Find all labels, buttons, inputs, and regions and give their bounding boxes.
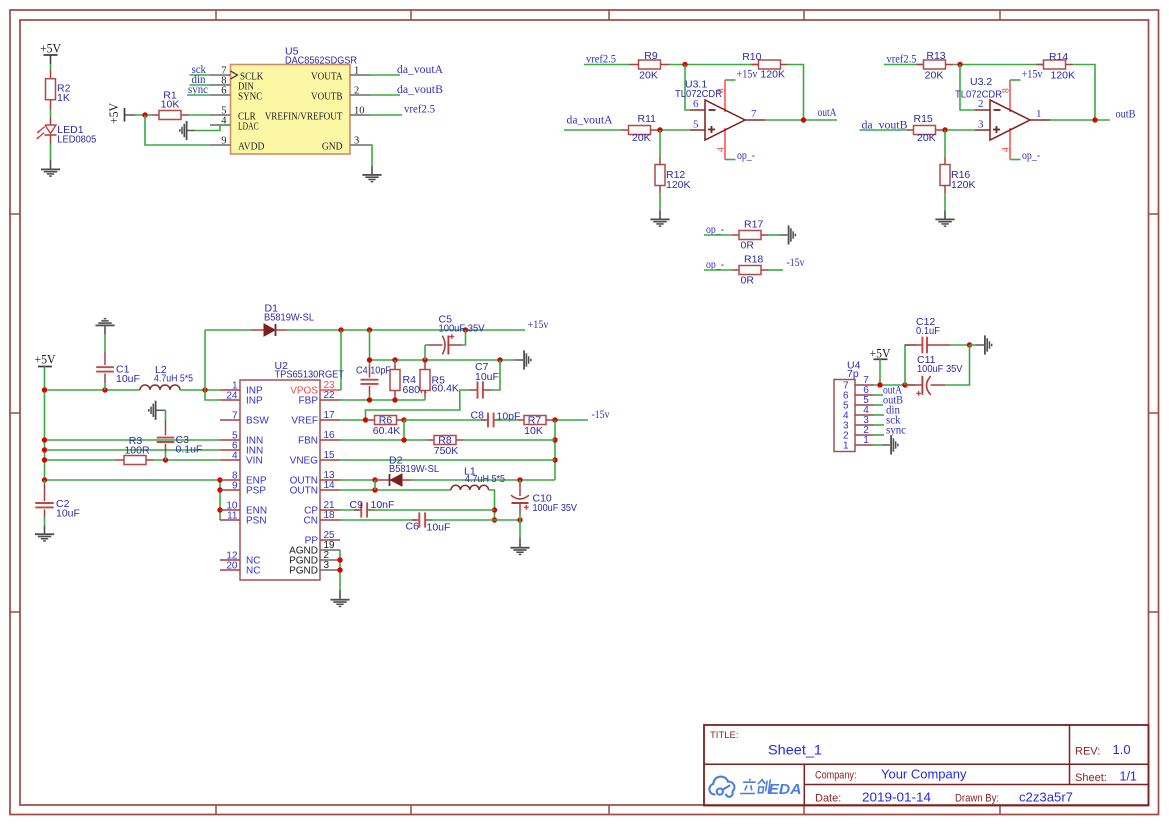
U4 pin 6 <box>855 394 874 396</box>
svg-text:4: 4 <box>232 450 238 461</box>
junction C4 column top <box>367 327 372 332</box>
svg-text:20K: 20K <box>632 132 651 144</box>
op-amp U3.1 output pin <box>745 119 765 121</box>
svg-text:+15v: +15v <box>528 319 549 331</box>
junction column at CP row <box>492 507 497 512</box>
resistor R6 (label inside) <box>367 419 375 421</box>
junction rail row450 <box>42 447 47 452</box>
svg-text:FBN: FBN <box>298 436 318 447</box>
wire L1 to C9/C6 column <box>489 490 495 520</box>
svg-text:3: 3 <box>324 560 330 571</box>
wire INP node up to D1 anode <box>205 390 220 400</box>
wire +5V to U4 pin7 row <box>879 359 881 385</box>
resistor R15 <box>907 129 914 131</box>
svg-text:20K: 20K <box>925 69 944 81</box>
ground (U4 pin1) <box>890 435 898 454</box>
wire C12 to ground node <box>950 344 970 346</box>
svg-text:-15v: -15v <box>592 409 610 421</box>
wire R10 to outA node <box>788 65 804 121</box>
svg-text:0.1uF: 0.1uF <box>176 443 203 455</box>
junction R11/R12 node <box>657 127 662 132</box>
junction ENN tie <box>217 507 222 512</box>
svg-text:C8: C8 <box>471 409 485 421</box>
svg-text:PSP: PSP <box>246 486 266 497</box>
svg-text:1: 1 <box>354 66 359 77</box>
wire U5 GND to ground <box>371 145 373 166</box>
svg-text:C4 10pF: C4 10pF <box>356 365 391 377</box>
svg-text:C6: C6 <box>406 520 420 532</box>
resistor R3 <box>116 459 125 461</box>
svg-text:8: 8 <box>716 88 726 93</box>
svg-text:op_-: op_- <box>737 150 755 162</box>
wire U3.2 output to outB node <box>1050 119 1110 121</box>
junction C11 left <box>902 382 907 387</box>
wire OUTN row 490 <box>340 489 451 491</box>
U2 pin 24 INP <box>220 399 240 401</box>
svg-text:op_-: op_- <box>1022 150 1040 162</box>
wire R9 to feedback node <box>669 64 759 66</box>
wire R8 to -15v column <box>463 439 555 441</box>
ground (R16) <box>935 219 954 227</box>
wire D2 to -15v column <box>412 479 555 481</box>
U5 pin 5 CLR <box>210 114 231 116</box>
svg-text:24: 24 <box>226 390 238 401</box>
junction R1/+5V node <box>142 112 147 117</box>
U2 pin 11 PSN <box>220 519 240 521</box>
U2 pin 16 FBN <box>320 439 340 441</box>
svg-text:+5V: +5V <box>40 42 61 56</box>
U5 pin 2 VOUTB <box>350 94 371 96</box>
svg-text:10uF: 10uF <box>427 522 451 534</box>
wire rail row INP (row 390) <box>45 389 141 391</box>
wire da_voutB to R15 <box>860 129 907 131</box>
wire R13 to feedback node B <box>953 64 1044 66</box>
svg-text:sync: sync <box>188 84 208 96</box>
wire FBP row 400 <box>340 399 425 401</box>
U4 pin 7 <box>855 384 874 386</box>
ground (C2) <box>35 533 54 541</box>
wire C6 to C10 bottom <box>428 519 520 521</box>
wire +5V rail vertical <box>44 367 46 481</box>
junction INP node <box>202 387 207 392</box>
resistor R12 <box>659 157 661 165</box>
junction row360 at R4 <box>392 357 397 362</box>
wire VREF row 420 <box>340 419 367 421</box>
wire +15v rail row 330 <box>287 329 525 331</box>
junction C1 row390 <box>102 387 107 392</box>
capacitor C1 <box>104 352 106 365</box>
svg-text:TITLE:: TITLE: <box>710 730 739 741</box>
junction +5V/pin7 <box>877 382 882 387</box>
wire R12 to ground <box>659 193 661 211</box>
ground stub row360 <box>515 359 524 361</box>
svg-text:GND: GND <box>322 141 343 153</box>
junction -15v column FBN <box>552 437 557 442</box>
wire R16 to ground <box>944 193 946 211</box>
svg-text:4: 4 <box>716 147 726 152</box>
svg-text:da_voutA: da_voutA <box>567 115 614 127</box>
capacitor C11 (polarized) <box>905 384 922 386</box>
title block border <box>704 725 1149 806</box>
svg-text:100R: 100R <box>124 444 150 456</box>
svg-text:3: 3 <box>354 136 359 147</box>
svg-text:AVDD: AVDD <box>238 141 265 153</box>
svg-text:B5819W-SL: B5819W-SL <box>264 312 314 324</box>
junction C12 right / ground node <box>967 342 972 347</box>
junction VREF node <box>363 417 368 422</box>
junction outB node <box>1092 117 1097 122</box>
resistor R16 <box>944 157 946 165</box>
U4 pin 1 <box>855 444 874 446</box>
U2 pin 8 ENP <box>220 479 240 481</box>
resistor R8 (label inside) <box>427 439 434 441</box>
svg-text:1: 1 <box>843 441 849 452</box>
svg-text:20K: 20K <box>917 132 936 144</box>
svg-text:22: 22 <box>324 390 336 401</box>
junction VPOS drop <box>338 327 343 332</box>
title block REV column divider <box>1069 725 1071 785</box>
U5 pin 9 AVDD <box>210 144 231 146</box>
wire FBN row 440 <box>340 439 427 441</box>
frame tick marks top <box>215 10 217 20</box>
svg-text:VREFIN/VREFOUT: VREFIN/VREFOUT <box>265 111 343 123</box>
svg-text:60.4K: 60.4K <box>373 425 400 437</box>
svg-text:120K: 120K <box>951 179 976 191</box>
wire ground to C1 <box>104 334 106 352</box>
svg-text:9: 9 <box>232 480 238 491</box>
resistor R4 <box>394 360 396 362</box>
resistor R2 <box>46 79 56 100</box>
junction feedback node B <box>957 62 962 67</box>
svg-text:+5V: +5V <box>870 347 891 361</box>
svg-text:R14: R14 <box>1049 51 1068 63</box>
ground (R12) <box>650 219 669 227</box>
U2 pin 1 INP <box>220 389 240 391</box>
U4 pin 5 <box>855 404 874 406</box>
svg-text:da_voutB: da_voutB <box>397 84 443 96</box>
svg-text:REV:: REV: <box>1075 746 1100 758</box>
U4 pin 4 <box>855 414 874 416</box>
capacitor C6 <box>412 519 420 521</box>
svg-text:10uF: 10uF <box>475 371 499 383</box>
ground (C1) <box>95 318 114 326</box>
svg-text:sync: sync <box>886 425 906 437</box>
junction rail row460 <box>42 457 47 462</box>
title block logo cell divider <box>803 764 805 805</box>
junction -15v column VNEG <box>552 457 557 462</box>
junction C3 bottom <box>163 457 168 462</box>
svg-text:1/1: 1/1 <box>1120 770 1137 784</box>
svg-text:R13: R13 <box>926 50 945 62</box>
junction R6/R8 column top <box>401 417 406 422</box>
svg-text:Sheet_1: Sheet_1 <box>768 742 822 758</box>
resistor R10 <box>752 64 759 66</box>
svg-text:750K: 750K <box>434 445 459 457</box>
junction C10 top <box>517 477 522 482</box>
svg-text:U3.2: U3.2 <box>970 76 992 88</box>
U5 pin 8 DIN <box>210 84 231 86</box>
wire vref2.5 to R13 <box>884 64 924 66</box>
svg-text:4.7uH 5*5: 4.7uH 5*5 <box>154 373 193 385</box>
title block horizontal divider 1 <box>704 763 1149 765</box>
wire R6 to C8 <box>404 419 486 421</box>
logo EasyEDA cloud icon <box>709 777 734 797</box>
IC U2 TPS65130RGET body <box>240 380 320 580</box>
svg-text:EDA: EDA <box>769 782 802 798</box>
svg-text:Sheet:: Sheet: <box>1075 772 1107 784</box>
svg-text:3: 3 <box>978 118 984 130</box>
svg-text:2: 2 <box>978 98 984 110</box>
op-amp U3.1 power pin 8 (+15v) <box>724 80 726 112</box>
svg-text:outA: outA <box>818 107 838 119</box>
svg-text:LED0805: LED0805 <box>57 134 96 146</box>
wire U3.1 output to outA node <box>765 119 837 121</box>
wire VPOS to +15v rail <box>340 389 341 391</box>
ground (LDAC) <box>179 121 187 140</box>
wire C10 to ground <box>519 520 521 539</box>
U5 clock marker pin 7 <box>231 71 238 79</box>
junction feedback node A <box>682 62 687 67</box>
op-amp U3.1 power pin 4 (op_-) <box>724 128 726 160</box>
wire U4 pin7 to C11 <box>874 384 915 386</box>
svg-text:TL072CDR: TL072CDR <box>675 88 722 100</box>
junction FBN at column <box>401 437 406 442</box>
wire R6/R8 column <box>403 420 405 440</box>
svg-text:120K: 120K <box>666 179 691 191</box>
svg-text:PSN: PSN <box>246 516 267 527</box>
wire L2 to INP node <box>180 389 220 391</box>
svg-text:11: 11 <box>227 510 238 521</box>
U2 pin 18 CN <box>320 519 340 521</box>
svg-text:SYNC: SYNC <box>238 91 262 103</box>
wire +5V flag to node <box>135 114 152 116</box>
junction outA node <box>801 117 806 122</box>
wire C5 right vertical <box>462 330 466 345</box>
svg-text:Drawn By:: Drawn By: <box>955 792 999 804</box>
svg-text:TPS65130RGET: TPS65130RGET <box>275 368 345 380</box>
wire OUTN row 480 <box>340 479 376 481</box>
junction -15v column top <box>552 417 557 422</box>
svg-text:VOUTB: VOUTB <box>311 91 343 103</box>
U2 pin 22 FBP <box>320 399 340 401</box>
svg-text:5: 5 <box>693 118 699 130</box>
svg-text:0.1uF: 0.1uF <box>916 325 940 337</box>
resistor R1 <box>152 114 159 116</box>
svg-text:8: 8 <box>1001 88 1011 93</box>
svg-text:100uF 35V: 100uF 35V <box>533 502 578 514</box>
wire R2 to LED1 <box>50 100 52 110</box>
svg-text:Your Company: Your Company <box>881 767 967 781</box>
frame tick marks left <box>10 213 20 215</box>
wire AGND/PGND tie <box>339 550 341 590</box>
svg-text:+15v: +15v <box>1022 69 1043 81</box>
wire U5 LDAC to ground <box>195 125 231 131</box>
wire feedback node B to U3.2 inverting input <box>960 65 975 111</box>
wire R14 to outB node <box>1073 65 1096 121</box>
svg-text:vref2.5: vref2.5 <box>404 103 435 115</box>
U2 pin 7 BSW <box>220 419 240 421</box>
op-amp U3.2 power pin 8 (+15v) <box>1009 80 1011 112</box>
wire CP row 510 <box>340 509 359 511</box>
svg-text:+15v: +15v <box>737 69 758 81</box>
capacitor C3 <box>148 401 156 420</box>
op-amp U3.2 power pin 4 (op_-) <box>1009 128 1011 160</box>
wire C11 column up <box>905 345 916 385</box>
wire rail row ENP (row 480) <box>45 479 221 481</box>
svg-text:DAC8562SDGSR: DAC8562SDGSR <box>285 54 357 66</box>
U2 pin 12 NC <box>220 559 240 561</box>
frame tick marks bottom <box>215 805 217 815</box>
IC U5 DAC8562SDGSR body <box>231 65 351 155</box>
wire R7 to -15v <box>553 419 589 421</box>
svg-text:op_-: op_- <box>706 259 724 271</box>
svg-text:9: 9 <box>221 136 226 147</box>
capacitor C2 <box>44 480 46 484</box>
resistor R17 <box>732 234 739 236</box>
connector U4 body <box>834 380 855 452</box>
svg-text:120K: 120K <box>1051 69 1076 81</box>
U2 pin 2 PGND <box>320 559 340 561</box>
wire feedback node to U3.1 inverting input <box>685 65 690 111</box>
resistor R18 <box>732 269 739 271</box>
wire C8 to R7 <box>495 419 518 421</box>
U5 pin 10 VREFIN/VREFOUT <box>350 114 371 116</box>
svg-text:10K: 10K <box>161 99 180 111</box>
wire row 360 branch <box>370 359 515 361</box>
capacitor C9 <box>354 509 362 511</box>
diode D1 B5819W-SL <box>251 329 264 331</box>
wire CN row 520 <box>340 519 417 521</box>
title block horizontal divider 2 <box>804 784 1148 786</box>
U4 pin 2 <box>855 434 874 436</box>
junction C5 right <box>463 327 468 332</box>
op-amp U3.1 input pins <box>690 109 705 111</box>
ground (R17) <box>788 225 796 244</box>
wire R11 to U3.1 non-inverting input <box>658 129 691 131</box>
ground (U5 GND) <box>362 174 381 182</box>
svg-text:20K: 20K <box>639 69 658 81</box>
resistor R14 <box>1037 64 1044 66</box>
wire vref2.5 to R9 <box>584 64 629 66</box>
wire LED1 to ground <box>50 135 52 144</box>
svg-text:100uF 35V: 100uF 35V <box>439 323 485 335</box>
svg-text:15: 15 <box>324 450 336 461</box>
svg-text:LDAC: LDAC <box>238 121 259 133</box>
junction FBP at R4 <box>392 397 397 402</box>
wire C9 to column <box>370 509 495 511</box>
wire R1 to U5 CLR <box>189 114 210 116</box>
svg-text:10uF: 10uF <box>56 507 80 519</box>
LED LED1 <box>45 125 56 134</box>
svg-text:7p: 7p <box>847 368 859 380</box>
svg-text:1: 1 <box>1036 108 1042 120</box>
U2 pin 5 INN <box>220 439 240 441</box>
svg-text:Date:: Date: <box>815 792 841 804</box>
junction FBP at C4 <box>367 397 372 402</box>
svg-text:1: 1 <box>863 435 869 446</box>
svg-text:10uF: 10uF <box>116 373 140 385</box>
wire +5V node to U5 AVDD <box>145 115 210 145</box>
wire R17 to ground <box>768 234 780 236</box>
svg-text:20: 20 <box>226 560 238 571</box>
U5 pin 7 SCLK <box>210 74 231 76</box>
wire node to R16 <box>944 130 946 157</box>
wire -15v column <box>554 420 556 480</box>
junction PGND pin3 tie <box>337 567 342 572</box>
U2 pin 19 AGND <box>320 549 340 551</box>
svg-text:6: 6 <box>221 86 226 97</box>
wire R3 to VIN pin <box>154 459 220 461</box>
capacitor C8 <box>481 419 488 421</box>
junction OUTN13 column <box>372 477 377 482</box>
resistor R11 <box>622 129 629 131</box>
svg-text:R10: R10 <box>742 51 761 63</box>
svg-text:VOUTA: VOUTA <box>311 71 343 83</box>
svg-text:7: 7 <box>751 108 757 120</box>
ground (U2 AGND) <box>330 599 349 607</box>
svg-text:Company:: Company: <box>815 769 857 781</box>
wire U4 pin1 to ground <box>874 444 882 446</box>
resistor R5 <box>424 362 426 370</box>
wire rail row VIN (row 460) <box>45 459 116 461</box>
svg-text:2019-01-14: 2019-01-14 <box>862 790 931 804</box>
wire OUTN13/14 tie <box>374 480 376 490</box>
svg-text:-15v: -15v <box>787 257 805 269</box>
svg-text:CN: CN <box>304 516 318 527</box>
junction row360 at C5 left <box>422 357 427 362</box>
ground stub (C11/C12) <box>970 344 977 346</box>
wire C4 column <box>369 330 371 366</box>
junction row360 at C7 right <box>497 357 502 362</box>
svg-text:op_-: op_- <box>706 224 724 236</box>
U5 pin 4 LDAC <box>210 124 231 126</box>
U2 pin 9 PSP <box>220 489 240 491</box>
svg-text:4: 4 <box>1001 147 1011 152</box>
resistor R7 (label inside) <box>518 419 525 421</box>
junction PGND pin2 tie <box>337 557 342 562</box>
wire C7 left to VREF node <box>366 390 464 420</box>
junction PSP tie <box>217 487 222 492</box>
U5 pin 6 SYNC <box>210 94 231 96</box>
svg-text:OUTN: OUTN <box>290 486 318 497</box>
svg-text:FBP: FBP <box>299 396 319 407</box>
svg-text:7: 7 <box>232 410 238 421</box>
svg-text:+5V: +5V <box>107 103 121 124</box>
junction R15/R16 node <box>942 127 947 132</box>
ground (C11/C12) <box>984 335 992 354</box>
wire da_voutA to R11 <box>564 129 622 131</box>
svg-text:6: 6 <box>693 98 699 110</box>
svg-text:120K: 120K <box>761 69 786 81</box>
U2 pin 17 VREF <box>320 419 340 421</box>
wire node to R12 <box>659 130 661 157</box>
svg-text:NC: NC <box>246 566 260 577</box>
wire op_- to R17 <box>704 234 732 236</box>
junction ENP tie <box>217 477 222 482</box>
U2 pin 10 ENN <box>220 509 240 511</box>
wire rail row INN5 (row 440) <box>45 439 221 441</box>
resistor R13 <box>917 64 924 66</box>
junction C10 bottom <box>517 517 522 522</box>
svg-text:R17: R17 <box>744 219 763 231</box>
svg-text:10pF: 10pF <box>497 411 521 423</box>
svg-text:0R: 0R <box>741 239 755 251</box>
svg-text:60.4K: 60.4K <box>432 383 459 395</box>
U2 pin 6 INN <box>220 449 240 451</box>
junction rail row390 <box>42 387 47 392</box>
svg-text:VREF: VREF <box>291 416 318 427</box>
junction row360 at C4 column <box>367 357 372 362</box>
